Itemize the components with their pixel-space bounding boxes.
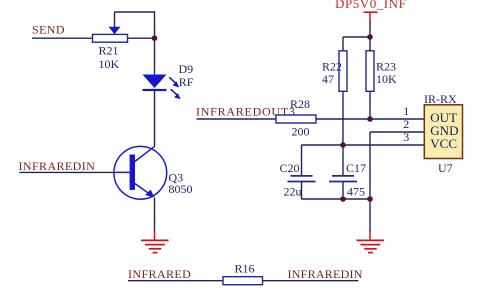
svg-text:IR-RX: IR-RX bbox=[424, 92, 457, 106]
ground symbol right bbox=[357, 230, 385, 253]
wire node to R23 top bbox=[369, 37, 371, 51]
svg-text:D9: D9 bbox=[179, 62, 194, 76]
wire rail to ground bbox=[369, 199, 371, 232]
svg-text:U7: U7 bbox=[438, 161, 453, 175]
svg-text:200: 200 bbox=[292, 125, 310, 139]
svg-text:R28: R28 bbox=[290, 97, 310, 111]
svg-text:RF: RF bbox=[179, 75, 194, 89]
svg-text:INFRARED: INFRARED bbox=[128, 267, 191, 281]
wire capacitor bottom rail bbox=[302, 198, 371, 200]
wire R22 bottom to VCC net bbox=[342, 91, 344, 145]
svg-text:C17: C17 bbox=[346, 161, 366, 175]
wire R23 bottom to OUT net bbox=[369, 91, 371, 119]
resistor R16 bbox=[223, 277, 263, 285]
junction dot ground rail bbox=[367, 196, 373, 202]
module U7 body bbox=[424, 105, 462, 159]
LED D9 emission arrow 2 bbox=[171, 89, 181, 99]
svg-text:47: 47 bbox=[322, 72, 334, 86]
svg-text:3: 3 bbox=[403, 130, 409, 144]
junction dot power node bbox=[367, 34, 373, 40]
capacitor C17 bbox=[329, 145, 357, 199]
svg-text:22u: 22u bbox=[284, 185, 302, 199]
wire INFRAREDOUT3 to R28 bbox=[197, 118, 277, 120]
wire wiper loop top bbox=[115, 11, 156, 13]
wire R16 to INFRAREDIN bbox=[263, 280, 359, 282]
svg-text:INFRAREDIN: INFRAREDIN bbox=[19, 159, 96, 173]
svg-text:R16: R16 bbox=[235, 261, 255, 275]
svg-text:C20: C20 bbox=[280, 161, 300, 175]
svg-text:10K: 10K bbox=[376, 72, 397, 86]
wire R21 right terminal bbox=[128, 37, 155, 39]
wiper stem wire bbox=[114, 12, 116, 28]
junction dot node R21/wiper bbox=[152, 35, 158, 41]
wire wiper loop right vertical bbox=[154, 12, 156, 38]
ground symbol left bbox=[141, 230, 169, 253]
power bar symbol DP5V0_INF bbox=[364, 12, 378, 22]
LED D9 cathode bar bbox=[143, 89, 167, 91]
svg-text:INFRAREDIN: INFRAREDIN bbox=[288, 267, 363, 281]
junction dot C17 bottom bbox=[340, 196, 346, 202]
wire Q3 emitter to ground bbox=[154, 198, 156, 232]
LED D9 emission arrow 1 bbox=[169, 77, 179, 87]
wire LED cathode to Q3 collector bbox=[154, 91, 156, 146]
resistor R23 bbox=[366, 51, 374, 92]
svg-text:VCC: VCC bbox=[430, 136, 457, 151]
wire R28 to pin 1 bbox=[316, 118, 424, 120]
wire SEND to R21 bbox=[32, 37, 93, 39]
wire INFRAREDIN to Q3 base bbox=[19, 171, 114, 173]
wire power stem to node bbox=[369, 22, 371, 38]
wire pin 3 VCC net bbox=[302, 144, 425, 146]
svg-text:R21: R21 bbox=[99, 44, 119, 58]
svg-text:SEND: SEND bbox=[32, 23, 65, 37]
wire pin 2 to ground rail bbox=[370, 132, 424, 199]
potentiometer R21 wiper arrow bbox=[109, 27, 121, 34]
wire node to R22 top bbox=[343, 37, 370, 51]
potentiometer R21 body bbox=[93, 34, 128, 42]
svg-text:1: 1 bbox=[403, 104, 409, 118]
svg-text:DP5V0_INF: DP5V0_INF bbox=[335, 0, 406, 11]
wire INFRARED to R16 bbox=[128, 280, 223, 282]
resistor R28 bbox=[276, 115, 316, 123]
wire R21 node to LED anode bbox=[154, 38, 156, 75]
svg-text:10K: 10K bbox=[99, 57, 120, 71]
svg-text:2: 2 bbox=[403, 117, 409, 131]
resistor R22 bbox=[339, 51, 347, 92]
junction dot R22/C17/VCC bbox=[340, 142, 346, 148]
svg-text:475: 475 bbox=[347, 185, 365, 199]
capacitor C20 bbox=[288, 145, 316, 199]
LED D9 triangle bbox=[143, 75, 167, 89]
junction dot R23/pin1 bbox=[367, 116, 373, 122]
transistor Q3 bbox=[114, 146, 167, 199]
svg-text:8050: 8050 bbox=[169, 182, 193, 196]
